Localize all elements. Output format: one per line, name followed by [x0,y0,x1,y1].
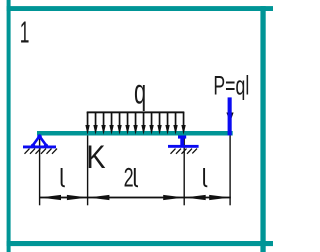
table frame top border [7,6,273,11]
roller support (right) [168,136,199,148]
dimension line [40,197,231,199]
distributed load q : top line [87,111,185,113]
svg-text:q: q [134,72,146,112]
extension line at right support [184,136,185,205]
dimension arrowheads [40,195,230,200]
svg-text:2: 2 [124,162,134,192]
distributed load q : arrows [85,112,185,135]
table frame bottom border [7,241,273,246]
pin support ground hatching [25,149,58,154]
svg-text:P=ql: P=ql [213,70,249,101]
force P=ql blue arrow bar [228,97,232,135]
svg-text:K: K [86,140,105,176]
extension line at beam right end [229,136,230,206]
dimension label l (right span) [204,168,207,186]
svg-text:1: 1 [20,17,30,50]
table frame right border [260,6,265,252]
roller support ground hatching [171,149,198,154]
force P=ql black arrowhead [226,98,233,123]
extension line at left support [39,136,40,205]
extension line at K [87,136,88,206]
dimension label l (left span) [62,168,65,186]
table frame left border [7,0,11,252]
pin support (left) [23,136,56,147]
beam [37,131,233,136]
